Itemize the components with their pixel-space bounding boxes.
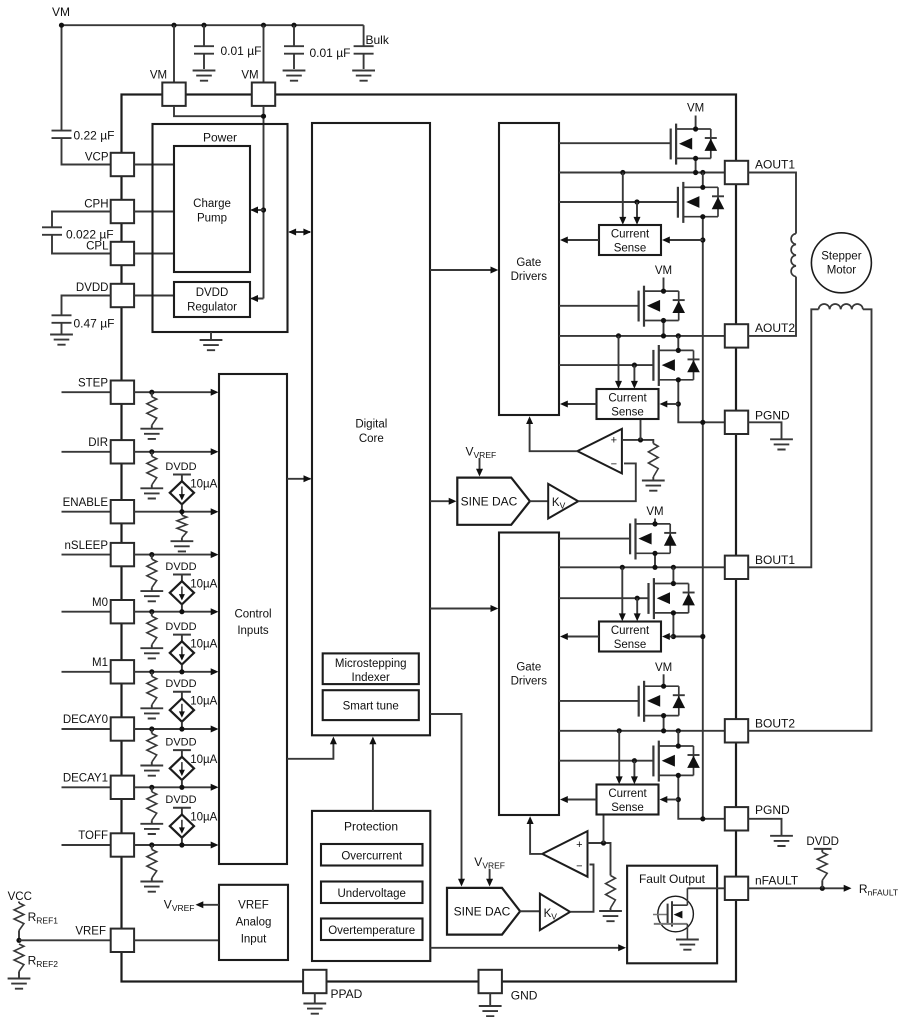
junction DIR pulldown node xyxy=(149,449,154,454)
arrow DECAY1 into Control Inputs xyxy=(211,784,219,791)
wire branch AOUT1 to current sense A1 xyxy=(622,173,624,220)
label Gate Drivers A xyxy=(511,257,548,283)
wire PPAD ground stem xyxy=(314,993,316,1003)
pin AOUT2 xyxy=(725,324,748,347)
svg-text:DVDD: DVDD xyxy=(165,678,196,690)
arrow into Current Sense A2 right xyxy=(660,401,668,408)
wire Q3 gate xyxy=(559,305,639,307)
resistor nFAULT pullup xyxy=(814,849,832,888)
block Current Sense B2 xyxy=(597,785,659,815)
arrow VVREF into SINE DAC A xyxy=(479,458,481,471)
wire Current Sense B2 to Gate Drivers B xyxy=(565,799,597,801)
wire BOUT2 net xyxy=(559,730,725,732)
junction PGND A rail dot xyxy=(700,420,705,425)
svg-text:0.01 µF: 0.01 µF xyxy=(310,46,351,60)
pin VCP xyxy=(111,153,134,176)
wire GND ground stem xyxy=(489,993,491,1005)
junction Q4 gate branch dot xyxy=(632,363,637,368)
label DVDD Regulator xyxy=(187,287,237,313)
ground M1 pulldown xyxy=(140,708,163,718)
resistor DIR pulldown xyxy=(147,452,157,488)
capacitor Bulk xyxy=(354,25,374,69)
wire winding A to AOUT2 xyxy=(748,277,796,336)
ground for 0.01uF #1 xyxy=(193,71,216,81)
wire DVDD to 0.47uF cap xyxy=(62,296,111,316)
svg-text:Drivers: Drivers xyxy=(511,271,548,283)
block VREF Analog Input xyxy=(219,885,288,960)
resistor DECAY0 pulldown xyxy=(147,729,157,765)
resistor comparator A to ground xyxy=(648,444,658,481)
wire current sense A2 to comparator A plus xyxy=(640,419,642,440)
arrow TOFF into Control Inputs xyxy=(211,842,219,849)
ground comparator B resistor xyxy=(599,911,622,921)
svg-text:Undervoltage: Undervoltage xyxy=(337,888,405,900)
wire comparator B plus node xyxy=(588,843,611,876)
svg-text:Drivers: Drivers xyxy=(511,676,548,688)
junction nSLEEP pulldown node xyxy=(149,552,154,557)
resistor comparator B to ground xyxy=(606,876,616,911)
ground DIR pulldown xyxy=(140,488,163,498)
junction BOUT2 dots xyxy=(661,728,666,733)
block SINE DAC B xyxy=(447,888,520,935)
pin PGND B xyxy=(725,807,748,830)
block Overtemperature xyxy=(321,919,423,941)
svg-text:ENABLE: ENABLE xyxy=(63,497,109,509)
svg-text:AOUT1: AOUT1 xyxy=(755,158,795,172)
wire Q2 gate xyxy=(559,201,678,203)
wire Q2 source long rail to PGND B xyxy=(702,217,704,819)
arrow up from Protection into Digital Core xyxy=(369,737,376,745)
svg-text:PGND: PGND xyxy=(755,408,790,422)
svg-text:0.01 µF: 0.01 µF xyxy=(221,44,262,58)
arrow Current Sense A2 into Gate Drivers A xyxy=(560,401,568,408)
block Power xyxy=(153,124,288,332)
svg-text:Pump: Pump xyxy=(197,212,227,224)
capacitor 0.022uF xyxy=(42,227,62,235)
pin PGND A xyxy=(725,411,748,434)
wire branch Q2 gate to current sense A1 xyxy=(636,202,638,219)
svg-text:−: − xyxy=(576,860,582,872)
wire KV B output to comparator B minus xyxy=(570,865,593,912)
svg-text:VM: VM xyxy=(687,103,704,115)
svg-text:10µA: 10µA xyxy=(190,812,217,824)
wire Digital Core to Gate Drivers B xyxy=(430,608,493,610)
junction M1 current source node xyxy=(179,669,184,674)
svg-text:M1: M1 xyxy=(92,657,108,669)
pin STEP xyxy=(111,381,134,404)
wire Q2 drain from AOUT1 xyxy=(702,173,704,188)
arrow into Current Sense A2 from AOUT2 xyxy=(615,381,622,389)
junction M1 pulldown node xyxy=(149,669,154,674)
junction Q2 source dot xyxy=(700,214,705,219)
wire comparator A plus node xyxy=(622,440,653,444)
svg-text:Motor: Motor xyxy=(827,264,857,276)
pin VM2 xyxy=(252,83,275,106)
resistor TOFF pulldown xyxy=(147,845,157,881)
wire M0 external stub xyxy=(62,611,111,613)
capacitor 0.47uF xyxy=(52,315,72,323)
chip boundary xyxy=(122,95,737,982)
wire Q1 source to AOUT1 xyxy=(695,158,697,172)
junction sense node B2 xyxy=(676,797,681,802)
svg-text:DVDD: DVDD xyxy=(165,794,196,806)
wire PGND A to ground xyxy=(748,422,781,439)
arrow into Current Sense B1 from Q6 gate xyxy=(634,613,641,621)
svg-text:nFAULT: nFAULT xyxy=(755,874,799,888)
ground DECAY0 pulldown xyxy=(140,766,163,776)
svg-text:CPH: CPH xyxy=(84,198,108,210)
block Undervoltage xyxy=(321,882,423,904)
wire branch Q4 gate to current sense A2 xyxy=(633,365,635,383)
svg-text:TOFF: TOFF xyxy=(78,830,108,842)
ground DECAY1 pulldown xyxy=(140,824,163,834)
wire Q5 gate xyxy=(559,538,630,540)
transistor Q7 (B high-side 2) xyxy=(639,681,685,722)
block DVDD Regulator xyxy=(174,282,250,317)
svg-text:DVDD: DVDD xyxy=(165,561,196,573)
arrow up into Digital Core bottom xyxy=(330,737,337,745)
capacitor 0.01uF #1 xyxy=(194,25,214,69)
ground fault output FET xyxy=(676,940,699,950)
junction Q4 source dot xyxy=(676,377,681,382)
junction Q1 source dot xyxy=(693,156,698,161)
resistor ENABLE pulldown xyxy=(177,512,187,541)
junction AOUT2 dots xyxy=(661,333,666,338)
wire VREF pin to block xyxy=(134,939,219,941)
wire Current Sense A1 to Gate Drivers A xyxy=(565,239,599,241)
arrow into Charge Pump xyxy=(250,207,258,214)
comparator A xyxy=(577,429,622,474)
junction Q2 gate branch dot xyxy=(634,199,639,204)
inductor winding A xyxy=(791,234,796,277)
arrow into SINE DAC B top xyxy=(458,879,465,887)
inductor winding B xyxy=(819,304,863,309)
wire AOUT1 net xyxy=(559,172,725,174)
svg-text:DVDD: DVDD xyxy=(165,736,196,748)
wire KV A output to comparator A minus xyxy=(578,463,636,501)
wire DECAY0 external stub xyxy=(62,728,111,730)
wire winding B to BOUT2 xyxy=(748,309,871,731)
junction Q3 source dot xyxy=(661,318,666,323)
svg-text:Charge: Charge xyxy=(193,198,231,210)
junction sense node A1 xyxy=(700,237,705,242)
junction AOUT1 dots xyxy=(693,170,698,175)
svg-text:DVDD: DVDD xyxy=(806,836,839,848)
junction Q8 gate branch dot xyxy=(632,758,637,763)
arrow into Current Sense B2 from Q8 gate xyxy=(631,776,638,784)
svg-text:VCP: VCP xyxy=(85,151,109,163)
junction M0 current source node xyxy=(179,609,184,614)
wire AOUT2 net xyxy=(559,335,725,337)
ground PGND A xyxy=(770,439,793,449)
junction PGND B rail dot xyxy=(700,816,705,821)
wire sense B2 arrow line xyxy=(665,799,679,801)
svg-text:VCC: VCC xyxy=(8,891,32,903)
motor Stepper Motor circle xyxy=(811,233,871,293)
label VREF Analog Input xyxy=(236,900,272,946)
pin DECAY1 xyxy=(111,776,134,799)
svg-text:10µA: 10µA xyxy=(190,754,217,766)
wire CPH to Charge Pump xyxy=(134,211,174,213)
svg-text:10µA: 10µA xyxy=(190,638,217,650)
wire branch Q6 gate to current sense B1 xyxy=(636,598,638,616)
svg-text:VM: VM xyxy=(241,70,258,82)
junction ENABLE current source node xyxy=(179,509,184,514)
transistor Q6 (B low-side 1) xyxy=(649,578,695,619)
arrowheads Power-DigitalCore bidirectional xyxy=(288,229,296,236)
svg-text:Regulator: Regulator xyxy=(187,301,237,313)
svg-text:AOUT2: AOUT2 xyxy=(755,321,795,335)
wire STEP external stub xyxy=(62,391,111,393)
arrow into Digital Core left xyxy=(304,475,312,482)
wire CPH to flying cap xyxy=(52,212,111,228)
wire nSLEEP external stub xyxy=(62,554,111,556)
wire branch BOUT1 to current sense B1 xyxy=(621,567,623,615)
wire SINE DAC B to KV B xyxy=(520,910,540,912)
svg-text:VREF: VREF xyxy=(75,926,106,938)
wire Q6 gate xyxy=(559,597,649,599)
wire DECAY1 to Control Inputs xyxy=(134,786,212,788)
label Current Sense B2 xyxy=(608,788,647,814)
arrow into Current Sense A1 from AOUT1 xyxy=(619,217,626,225)
wire Digital Core to SINE DAC B xyxy=(430,714,461,881)
svg-text:Stepper: Stepper xyxy=(821,250,861,262)
arrow to RnFAULT xyxy=(844,885,852,892)
wire DECAY0 to Control Inputs xyxy=(134,728,212,730)
current source 10uA M0 xyxy=(170,575,194,612)
label Digital Core xyxy=(355,419,387,445)
ground TOFF pulldown xyxy=(140,882,163,892)
transistor Q1 (A high-side 1) xyxy=(671,124,717,165)
svg-text:Sense: Sense xyxy=(614,243,647,255)
wire sense A1 arrow line xyxy=(667,239,703,241)
svg-text:SINE DAC: SINE DAC xyxy=(461,494,518,508)
junction VM internal dots xyxy=(261,114,266,119)
wire AOUT1 to winding A xyxy=(748,173,796,234)
wire Protection to Digital Core xyxy=(372,741,374,811)
transistor fault output FET circle xyxy=(658,896,694,932)
junction M0 pulldown node xyxy=(149,609,154,614)
svg-text:DECAY0: DECAY0 xyxy=(63,714,108,726)
amplifier KV B xyxy=(540,894,570,931)
pin PPAD xyxy=(303,970,326,993)
transistor fault output FET xyxy=(653,888,687,939)
arrow into Current Sense B1 from BOUT1 xyxy=(619,613,626,621)
wire TOFF external stub xyxy=(62,844,111,846)
wire Control Inputs to Digital Core xyxy=(287,478,311,480)
svg-text:Gate: Gate xyxy=(516,257,541,269)
wire branch AOUT2 to current sense A2 xyxy=(618,336,620,383)
pin nFAULT xyxy=(725,877,748,900)
transistor Q2 (A low-side 1) xyxy=(678,182,724,223)
ground M0 pulldown xyxy=(140,648,163,658)
block Smart tune xyxy=(323,690,419,720)
arrow VVREF out of block xyxy=(196,901,204,908)
wire VM to Q1 drain xyxy=(695,116,697,130)
svg-text:Power: Power xyxy=(203,131,237,145)
pin M1 xyxy=(111,660,134,683)
wire Digital Core to Gate Drivers A xyxy=(430,269,493,271)
svg-text:BOUT2: BOUT2 xyxy=(755,716,795,730)
resistor DECAY1 pulldown xyxy=(147,787,157,823)
junction Q6 source dot xyxy=(671,610,676,615)
wire Power to Digital Core bus xyxy=(290,231,311,233)
current source 10uA M1 xyxy=(170,635,194,672)
svg-text:Fault Output: Fault Output xyxy=(639,872,706,886)
pin VM1 xyxy=(162,83,185,106)
svg-text:VM: VM xyxy=(52,5,70,19)
wire Protection to Fault Output xyxy=(430,947,620,949)
svg-text:Protection: Protection xyxy=(344,819,398,833)
arrow VVREF into SINE DAC B xyxy=(489,869,491,881)
capacitor 0.01uF #2 xyxy=(284,25,304,69)
pin DIR xyxy=(111,440,134,463)
junction Q8 source dot xyxy=(676,773,681,778)
wire Q8 gate xyxy=(559,760,653,762)
wire Q8 drain from BOUT2 xyxy=(677,731,679,746)
svg-text:DVDD: DVDD xyxy=(76,282,109,294)
wire VM top rail xyxy=(62,24,364,26)
block Gate Drivers B xyxy=(499,533,559,816)
svg-text:Sense: Sense xyxy=(611,802,644,814)
wire SINE DAC A to KV A xyxy=(530,500,548,502)
wire VM pin1 to internal rail xyxy=(174,106,264,116)
svg-text:Gate: Gate xyxy=(516,662,541,674)
block Microstepping Indexer xyxy=(323,653,419,684)
svg-text:Inputs: Inputs xyxy=(237,625,269,637)
ground for 0.47uF xyxy=(50,335,73,345)
wire ENABLE to Control Inputs xyxy=(134,511,212,513)
svg-text:SINE DAC: SINE DAC xyxy=(454,904,511,918)
wire Current Sense A2 to Gate Drivers A xyxy=(565,403,597,405)
junction VM rail dots xyxy=(59,23,64,28)
pin GND xyxy=(479,970,502,993)
arrow comparator B into Gate Drivers B bottom xyxy=(527,816,534,824)
wire Q3 source to AOUT2 xyxy=(663,321,665,336)
svg-text:nSLEEP: nSLEEP xyxy=(65,540,109,552)
svg-text:10µA: 10µA xyxy=(190,578,217,590)
junction Q4 drain dot xyxy=(676,348,681,353)
block SINE DAC A xyxy=(457,478,530,525)
wire Q7 source to BOUT2 xyxy=(663,716,665,731)
block Overcurrent xyxy=(321,844,423,866)
arrow M1 into Control Inputs xyxy=(211,668,219,675)
svg-text:Smart tune: Smart tune xyxy=(343,701,399,713)
svg-text:CPL: CPL xyxy=(86,240,109,252)
junction Q5 drain dot xyxy=(652,521,657,526)
wire Q6 source to sense node B1 xyxy=(673,613,702,637)
wire Q4 gate xyxy=(559,364,653,366)
wire VVREF output arrow xyxy=(201,904,219,906)
wire Q7 gate xyxy=(559,700,639,702)
arrow into DVDD Regulator xyxy=(250,295,258,302)
wire branch BOUT2 to current sense B2 xyxy=(618,731,620,779)
wire VM internal vertical to regulators xyxy=(252,106,264,299)
wire sense A2 arrow line xyxy=(665,403,679,405)
wire sense B1 arrow line xyxy=(667,636,673,638)
svg-text:−: − xyxy=(611,458,617,470)
resistor RREF1 xyxy=(14,902,24,941)
svg-text:STEP: STEP xyxy=(78,377,108,389)
wire VM to Q7 drain xyxy=(663,674,665,686)
svg-text:PPAD: PPAD xyxy=(331,987,363,1001)
junction Q6 gate branch dot xyxy=(635,596,640,601)
svg-text:DVDD: DVDD xyxy=(196,287,229,299)
junction sense node B1 dots xyxy=(671,634,676,639)
block Digital Core xyxy=(312,123,430,735)
arrow DIR into Control Inputs xyxy=(211,448,219,455)
label Current Sense A2 xyxy=(608,393,647,419)
svg-text:VM: VM xyxy=(655,265,672,277)
svg-text:VM: VM xyxy=(646,506,663,518)
label Microstepping Indexer xyxy=(335,658,407,684)
wire M1 to Control Inputs xyxy=(134,671,212,673)
wire PGND B to ground xyxy=(748,819,781,836)
svg-text:Overtemperature: Overtemperature xyxy=(328,925,415,937)
wire VCP to Charge Pump xyxy=(134,164,174,166)
junction comparator A plus dot xyxy=(638,437,643,442)
block Charge Pump U-CP xyxy=(174,146,250,272)
junction sense node A2 xyxy=(676,401,681,406)
amplifier KV A xyxy=(548,484,578,519)
wire current sense B2 to comparator B plus xyxy=(603,815,605,844)
wire STEP to Control Inputs xyxy=(134,391,212,393)
comparator B xyxy=(542,831,587,877)
arrow Current Sense B1 into Gate Drivers B xyxy=(560,633,568,640)
junction BOUT1 dots xyxy=(652,565,657,570)
resistor STEP pulldown xyxy=(147,392,157,428)
junction Q7 drain dot xyxy=(661,684,666,689)
svg-text:VM: VM xyxy=(655,662,672,674)
pin BOUT1 xyxy=(725,556,748,579)
svg-text:Analog: Analog xyxy=(236,917,272,929)
ground PGND B xyxy=(770,836,793,846)
ground nSLEEP pulldown xyxy=(140,591,163,601)
wire Power block ground stem xyxy=(210,332,212,340)
wire DVDD to regulator xyxy=(134,295,174,297)
svg-text:10µA: 10µA xyxy=(190,696,217,708)
svg-text:M0: M0 xyxy=(92,597,108,609)
label Charge Pump xyxy=(193,198,231,224)
label Control Inputs xyxy=(234,609,271,637)
junction TOFF current source node xyxy=(179,842,184,847)
wire VM to Q5 drain xyxy=(654,519,656,524)
transistor Q3 (A high-side 2) xyxy=(639,286,685,327)
wire TOFF to Control Inputs xyxy=(134,844,212,846)
block Current Sense B1 xyxy=(599,622,661,652)
wire cap to ground xyxy=(61,323,63,334)
arrow into Current Sense B1 right xyxy=(662,633,670,640)
arrow into SINE DAC A xyxy=(449,498,457,505)
arrow Current Sense B2 into Gate Drivers B xyxy=(560,796,568,803)
svg-text:Current: Current xyxy=(608,788,647,800)
wire Q4 drain from AOUT2 xyxy=(677,336,679,351)
arrow M0 into Control Inputs xyxy=(211,608,219,615)
wire nFAULT to pull-up and RnFAULT xyxy=(748,887,845,889)
svg-text:VM: VM xyxy=(150,70,167,82)
ground below Power block xyxy=(200,340,223,350)
svg-text:DVDD: DVDD xyxy=(165,621,196,633)
wire comparator A output to Gate Drivers A xyxy=(530,421,578,451)
junction DECAY0 pulldown node xyxy=(149,726,154,731)
ground comparator A resistor xyxy=(642,481,665,491)
ground GND xyxy=(479,1006,502,1016)
wire BOUT1 to winding B xyxy=(748,309,818,567)
pin VREF xyxy=(111,929,134,952)
ground STEP pulldown xyxy=(140,429,163,439)
wire branch Q8 gate to current sense B2 xyxy=(633,761,635,779)
current source 10uA TOFF xyxy=(170,808,194,845)
